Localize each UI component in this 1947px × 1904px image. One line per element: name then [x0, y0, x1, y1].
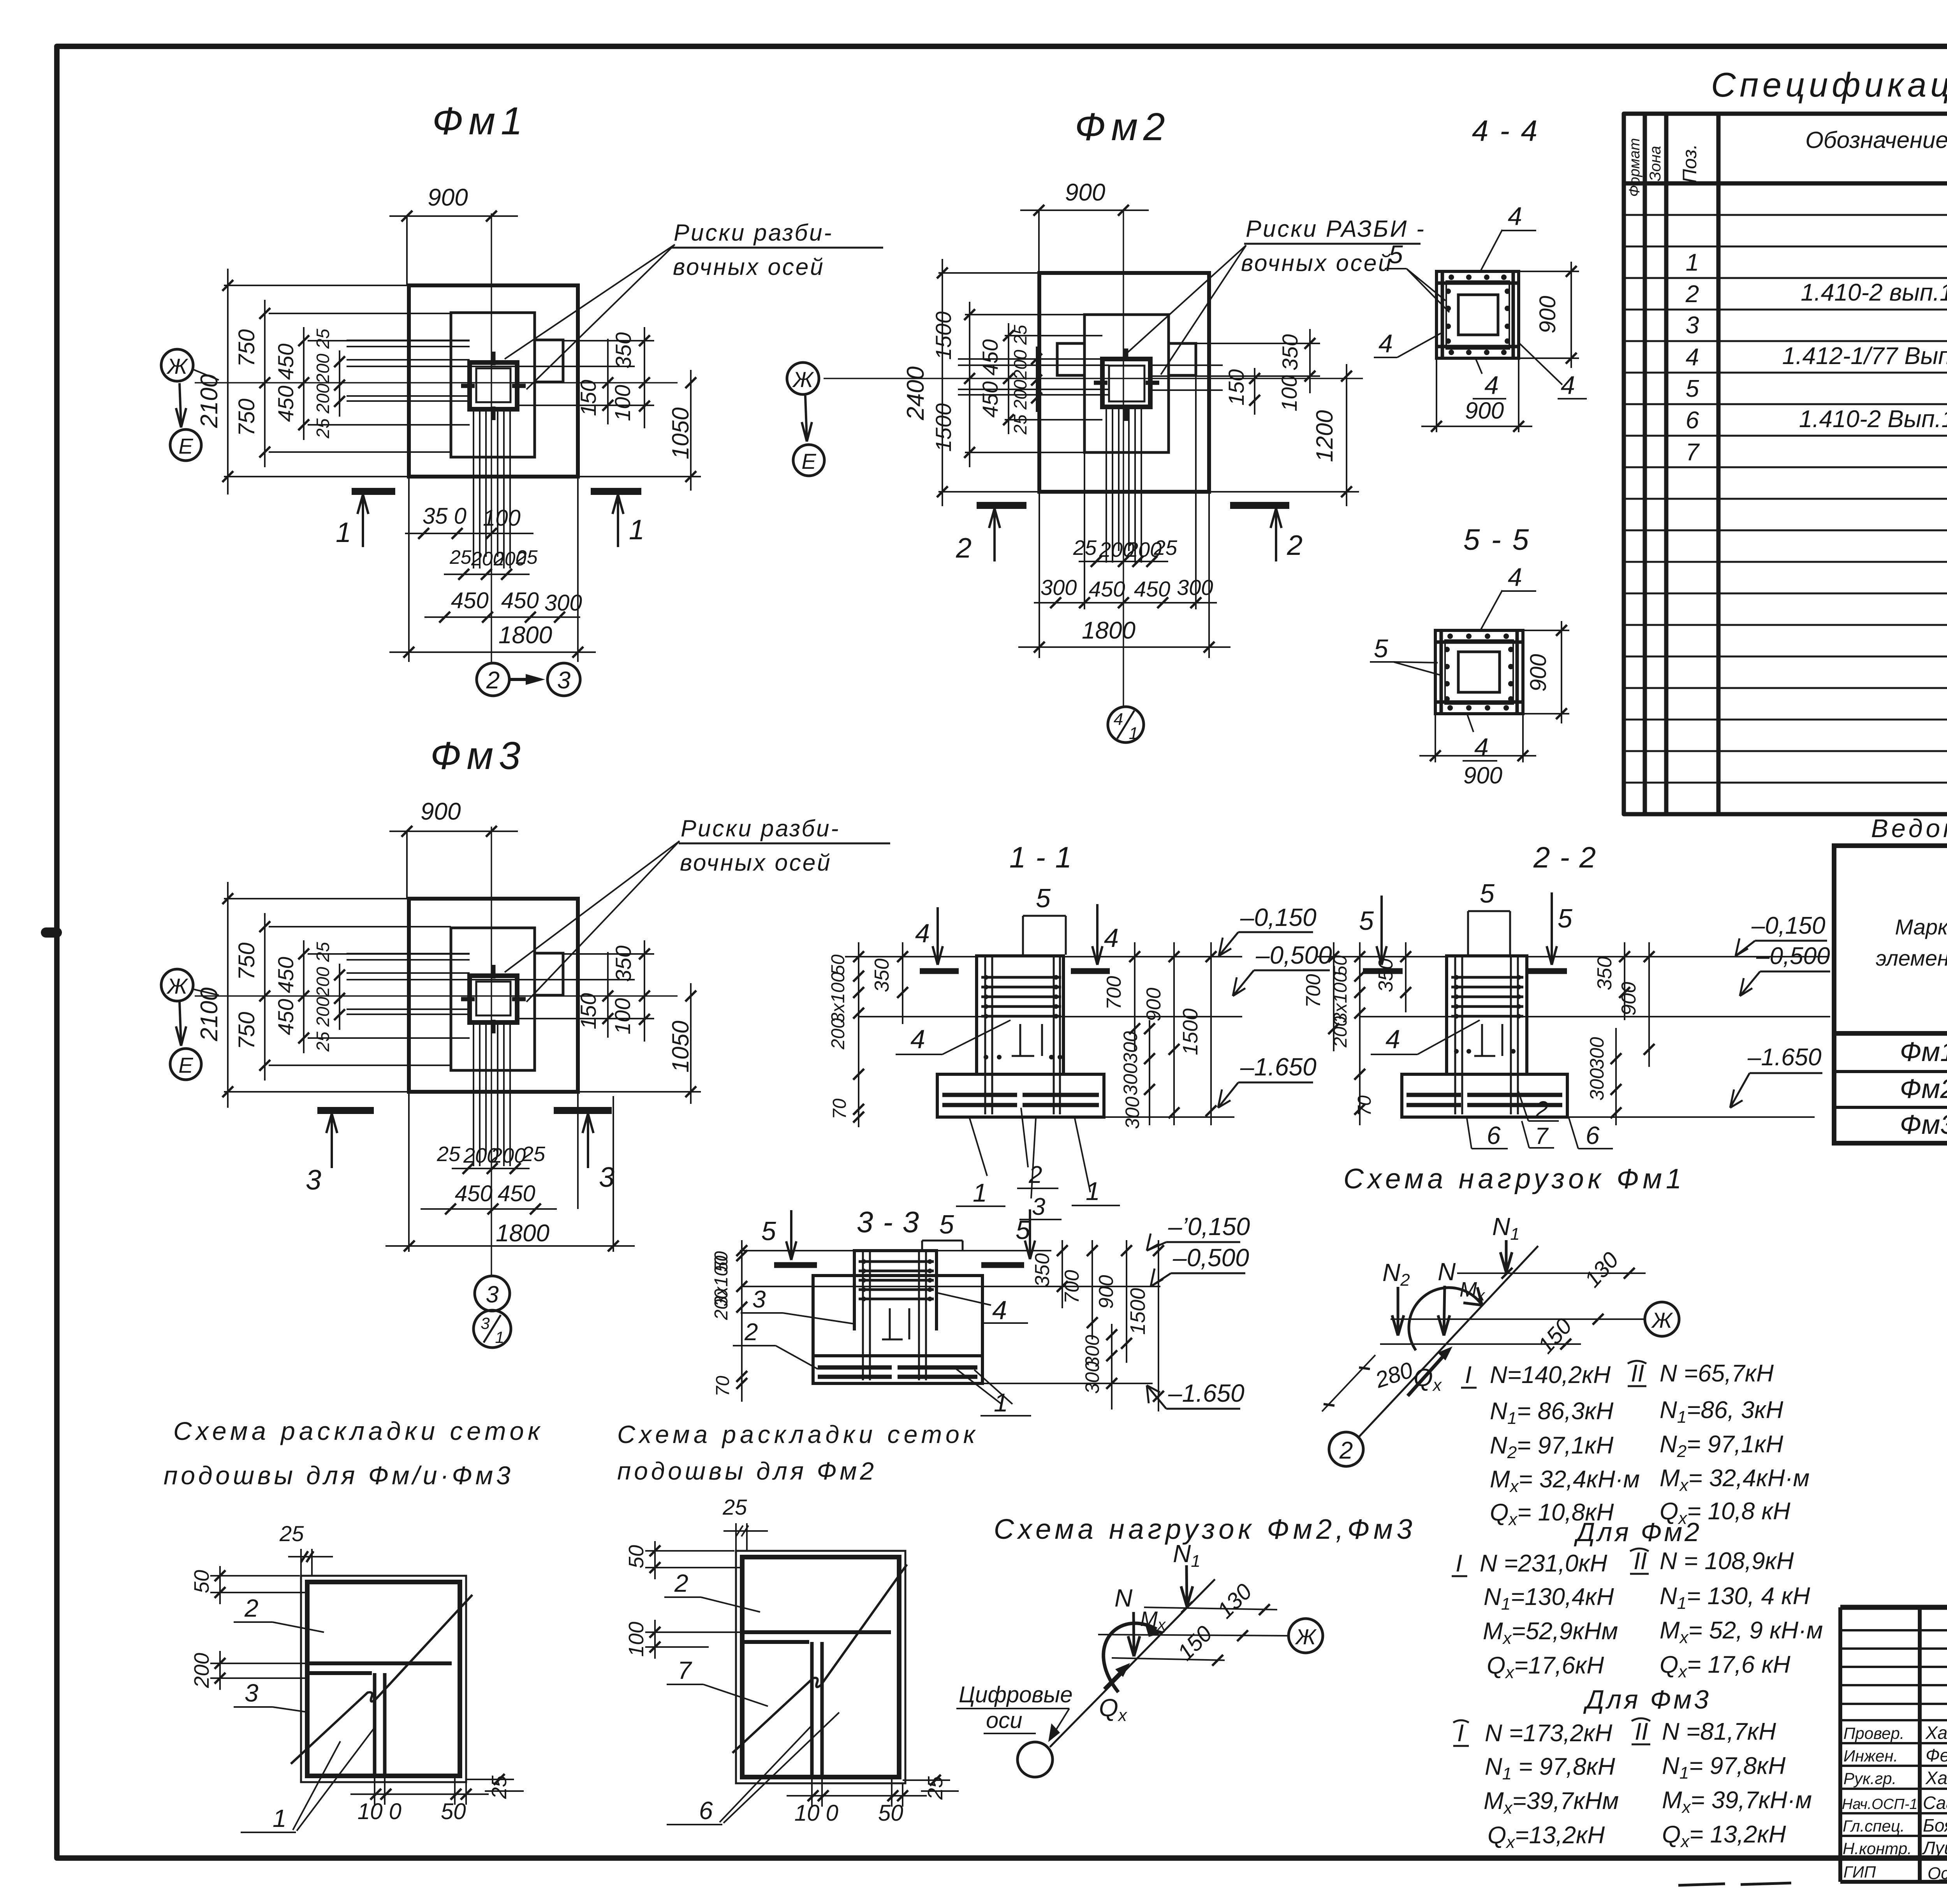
svg-text:900: 900	[1095, 1275, 1118, 1309]
svg-text:–1.650: –1.650	[1240, 1053, 1317, 1081]
svg-text:1800: 1800	[496, 1220, 549, 1247]
svg-text:25: 25	[488, 1775, 511, 1799]
svg-text:Фм1: Фм1	[432, 99, 528, 143]
axis circle Е	[170, 1049, 201, 1080]
left dim 450/450	[303, 940, 305, 1053]
left dim 750/750	[264, 300, 266, 467]
svg-text:Для Фм3: Для Фм3	[1583, 1685, 1711, 1714]
bottom dim 25 200 200 25	[444, 574, 530, 575]
svg-text:5: 5	[1686, 375, 1699, 402]
slab mesh bars	[942, 1095, 1099, 1105]
pedestal mesh bars	[859, 1262, 934, 1299]
pedestal	[977, 956, 1063, 1074]
svg-text:450: 450	[978, 339, 1002, 375]
svg-text:5: 5	[1359, 906, 1374, 936]
svg-text:Ж: Ж	[166, 974, 188, 998]
svg-text:Провер.: Провер.	[1843, 1724, 1905, 1742]
column inner	[476, 368, 511, 402]
svg-text:3: 3	[1686, 312, 1699, 339]
pedestal rebar verticals	[1455, 956, 1518, 1114]
section mark 2 left	[977, 502, 1026, 509]
svg-text:300: 300	[1120, 1031, 1141, 1064]
rebar dots	[1444, 633, 1514, 711]
left dim 25 200 200 25	[1036, 347, 1037, 412]
leader Риски	[505, 245, 675, 389]
svg-text:700: 700	[1103, 976, 1125, 1010]
pedestal	[1447, 956, 1527, 1074]
column outer	[470, 976, 517, 1022]
inner inset frame	[1446, 281, 1509, 349]
svg-text:5: 5	[1558, 904, 1572, 933]
svg-text:2: 2	[1028, 1161, 1042, 1188]
svg-text:Боярченко: Боярченко	[1923, 1815, 1947, 1835]
svg-text:Схема раскладки сеток: Схема раскладки сеток	[617, 1420, 979, 1448]
ground bars	[1363, 968, 1567, 974]
mesh bars vertical	[474, 1022, 510, 1166]
dim 900 bottom	[1421, 426, 1532, 427]
svg-text:N =231,0кН: N =231,0кН	[1480, 1550, 1607, 1577]
svg-text:25 200200 25: 25 200200 25	[1010, 325, 1030, 435]
svg-text:4: 4	[1508, 563, 1522, 591]
svg-text:5: 5	[1389, 240, 1403, 269]
steel table: Ведомость расхода стали	[1834, 846, 1947, 1143]
spec body texts	[1685, 184, 1947, 812]
base slab	[937, 1074, 1104, 1117]
Ж circle	[1645, 1302, 1679, 1336]
mesh square outer	[736, 1551, 905, 1783]
svg-text:5: 5	[1480, 879, 1495, 908]
svg-text:Для Фм2: Для Фм2	[1574, 1517, 1702, 1547]
svg-text:–’0,150: –’0,150	[1168, 1212, 1250, 1241]
svg-text:2: 2	[744, 1319, 758, 1346]
axis arrow down	[805, 396, 807, 439]
svg-text:Фм2: Фм2	[1075, 105, 1171, 149]
axis arrow down	[180, 1001, 181, 1044]
svg-text:35 0: 35 0	[422, 503, 467, 529]
column inner	[1109, 366, 1144, 401]
horizontal axis Ж	[195, 382, 678, 384]
column outer	[470, 362, 517, 409]
svg-text:5: 5	[1036, 883, 1051, 913]
middle line to Ж	[1391, 1318, 1645, 1320]
vertical axis	[1123, 211, 1124, 707]
riska marks	[1094, 348, 1159, 421]
svg-text:оси: оси	[986, 1708, 1023, 1733]
digital axis circle	[1018, 1742, 1053, 1777]
svg-text:750: 750	[234, 1012, 259, 1050]
mesh square outer	[301, 1576, 466, 1782]
inner mesh staple	[1012, 1024, 1042, 1056]
slab mesh bars	[1407, 1095, 1562, 1105]
svg-text:2: 2	[1535, 1096, 1548, 1123]
svg-text:–0,500: –0,500	[1255, 941, 1332, 969]
svg-text:200: 200	[190, 1653, 213, 1688]
mesh frame bars	[1435, 630, 1523, 714]
svg-text:50: 50	[441, 1799, 466, 1824]
svg-text:Ж: Ж	[166, 354, 188, 378]
svg-text:Ж: Ж	[1651, 1308, 1673, 1332]
svg-text:3: 3	[245, 1679, 259, 1707]
svg-text:4: 4	[1561, 371, 1575, 399]
svg-text:5: 5	[939, 1210, 954, 1239]
svg-text:II: II	[1631, 1360, 1644, 1387]
section mark 3 right	[554, 1107, 612, 1114]
svg-text:–1.650: –1.650	[1168, 1379, 1245, 1407]
svg-text:Рук.гр.: Рук.гр.	[1843, 1769, 1896, 1788]
diagonal	[291, 1595, 472, 1764]
svg-text:2: 2	[956, 533, 972, 564]
svg-text:25: 25	[521, 1142, 546, 1166]
bottom dims 100 50 25	[350, 1776, 489, 1805]
svg-text:1: 1	[336, 517, 351, 548]
left dim stack	[1333, 942, 1334, 1051]
svg-text:450: 450	[501, 588, 539, 613]
axis circle Е	[170, 429, 201, 461]
svg-text:3: 3	[306, 1165, 321, 1196]
middle step	[813, 1276, 982, 1356]
left dim 450/450	[1008, 323, 1009, 434]
right step	[535, 340, 563, 382]
pedestal rebar verticals	[863, 1251, 926, 1380]
svg-text:3х100: 3х100	[828, 972, 849, 1023]
svg-text:4: 4	[1385, 1024, 1400, 1054]
svg-text:6: 6	[699, 1797, 713, 1825]
svg-text:Фм3: Фм3	[1900, 1109, 1947, 1140]
svg-text:70: 70	[829, 1098, 850, 1119]
svg-text:1: 1	[973, 1178, 987, 1207]
svg-text:1 - 1: 1 - 1	[1009, 841, 1072, 874]
level lines	[1360, 1017, 1830, 1117]
svg-text:900: 900	[1065, 179, 1105, 206]
riska marks	[461, 965, 526, 1033]
svg-text:II: II	[1635, 1718, 1648, 1745]
280 dim slant	[1322, 1355, 1375, 1411]
outer slab outline Фм2	[1039, 273, 1209, 492]
svg-text:–0,500: –0,500	[1756, 943, 1830, 970]
title block (stamp)	[1678, 1607, 1947, 1885]
svg-text:I: I	[1457, 1720, 1464, 1747]
pedestal mesh bars	[1451, 977, 1523, 1016]
mesh 3/1 vertical divider	[375, 1673, 385, 1776]
svg-text:4: 4	[1114, 710, 1123, 729]
svg-text:4: 4	[1474, 733, 1489, 762]
svg-text:1800: 1800	[498, 622, 552, 649]
svg-text:700: 700	[1302, 974, 1325, 1008]
svg-text:100: 100	[483, 505, 521, 531]
svg-text:350: 350	[1031, 1253, 1054, 1287]
svg-text:25: 25	[449, 546, 472, 568]
svg-text:Фм2: Фм2	[1900, 1073, 1947, 1104]
right dim 350/100	[644, 327, 645, 428]
base slab	[813, 1356, 982, 1383]
svg-text:200: 200	[828, 1018, 849, 1050]
steel table texts	[1876, 854, 1947, 1140]
svg-text:Ханин: Ханин	[1925, 1723, 1947, 1743]
frame left edge notch	[46, 927, 57, 938]
svg-text:100: 100	[610, 385, 635, 421]
svg-text:I: I	[1456, 1550, 1462, 1577]
svg-text:900: 900	[421, 798, 461, 825]
svg-text:Риски разби-: Риски разби-	[674, 220, 833, 246]
svg-text:3 - 3: 3 - 3	[857, 1206, 920, 1239]
svg-text:3х100: 3х100	[1330, 972, 1351, 1023]
svg-text:750: 750	[234, 329, 259, 367]
svg-text:1: 1	[1686, 249, 1699, 276]
svg-text:Поз.: Поз.	[1679, 144, 1701, 183]
svg-text:1: 1	[629, 514, 644, 546]
svg-text:Обозначение: Обозначение	[1805, 127, 1947, 153]
svg-text:Qx= 13,2кН: Qx= 13,2кН	[1662, 1821, 1786, 1851]
svg-text:70: 70	[1354, 1095, 1375, 1116]
bottom dim 1800	[389, 651, 596, 653]
svg-text:Саакьянц: Саакьянц	[1923, 1793, 1947, 1813]
svg-text:7: 7	[1535, 1123, 1549, 1149]
svg-text:1050: 1050	[667, 407, 694, 459]
signatures (squiggles)	[1939, 1727, 1947, 1881]
pedestal	[854, 1251, 937, 1330]
svg-text:1: 1	[1129, 724, 1138, 743]
svg-text:4: 4	[910, 1024, 925, 1054]
axis circle Е	[793, 445, 824, 476]
svg-text:1.412-1/77 Вып.3: 1.412-1/77 Вып.3	[1782, 343, 1947, 370]
svg-text:350: 350	[871, 959, 893, 992]
svg-text:200: 200	[1330, 1016, 1351, 1048]
slant axis line	[1050, 1579, 1215, 1747]
middle step outline	[451, 313, 535, 457]
section mark 3 left	[317, 1107, 374, 1114]
right dim 1200	[1346, 364, 1347, 506]
Фм1 load values	[1465, 1360, 1810, 1529]
svg-text:900: 900	[1535, 296, 1560, 334]
signature table texts	[1842, 1723, 1947, 1883]
bottom dim 25 200 200 25	[452, 1168, 530, 1169]
svg-text:1: 1	[273, 1804, 287, 1832]
ГИП row dashes	[1678, 1881, 1947, 1885]
section mark 1 left	[352, 488, 395, 495]
Ж circle	[1289, 1619, 1323, 1653]
ground bars	[920, 968, 1110, 974]
svg-text:300: 300	[1120, 1063, 1141, 1096]
svg-text:900: 900	[1526, 654, 1551, 692]
left dim 25 200 200 25	[339, 350, 340, 417]
dim 900 bottom	[1419, 755, 1536, 757]
svg-text:N =81,7кН: N =81,7кН	[1662, 1718, 1776, 1745]
svg-text:100: 100	[610, 998, 635, 1034]
outer slab outline Фм1	[409, 285, 578, 477]
svg-text:1050: 1050	[667, 1021, 694, 1072]
svg-text:2: 2	[1339, 1437, 1353, 1464]
svg-text:4 - 4: 4 - 4	[1472, 114, 1539, 148]
svg-text:–0,500: –0,500	[1172, 1244, 1249, 1272]
svg-text:2: 2	[1685, 281, 1699, 308]
middle step outline	[1084, 315, 1169, 452]
right step	[1169, 343, 1196, 375]
middle line to Ж	[1098, 1635, 1289, 1636]
svg-text:7: 7	[1686, 439, 1700, 466]
svg-text:подошвы для Фм2: подошвы для Фм2	[617, 1457, 877, 1485]
bottom dims 100 50 25	[787, 1777, 927, 1807]
vertical axis	[491, 827, 492, 1276]
svg-text:Нач.ОСП-1: Нач.ОСП-1	[1842, 1796, 1918, 1812]
svg-text:I: I	[1465, 1362, 1472, 1388]
svg-text:Ж: Ж	[792, 367, 814, 392]
axis circle Ж	[161, 349, 193, 381]
bottom dim 450 450 300	[424, 616, 580, 618]
dim 900 right	[1561, 621, 1562, 723]
svg-text:4: 4	[915, 919, 930, 948]
svg-text:Фм1: Фм1	[1900, 1036, 1947, 1067]
svg-text:5: 5	[1016, 1215, 1030, 1245]
column outer	[1102, 359, 1150, 407]
svg-text:1.410-2 вып.1: 1.410-2 вып.1	[1801, 279, 1947, 306]
svg-text:100: 100	[625, 1622, 648, 1657]
left dim 450/450	[303, 327, 305, 440]
axis 2 slant line	[1359, 1246, 1538, 1437]
vertical axis	[491, 213, 492, 662]
svg-text:900: 900	[1463, 762, 1502, 788]
svg-text:ГИП: ГИП	[1843, 1863, 1876, 1881]
svg-text:450: 450	[273, 385, 298, 422]
svg-text:подошвы для Фм/и·Фм3: подошвы для Фм/и·Фм3	[164, 1461, 514, 1490]
svg-text:2100: 2100	[196, 374, 223, 428]
svg-text:7: 7	[678, 1656, 692, 1684]
svg-text:Риски разби-: Риски разби-	[681, 815, 840, 841]
svg-text:Ж: Ж	[1294, 1624, 1317, 1649]
svg-text:450: 450	[273, 999, 298, 1035]
ground level line	[1316, 956, 1828, 957]
svg-text:50: 50	[625, 1545, 648, 1568]
svg-text:300: 300	[1081, 1361, 1103, 1394]
circle 3/1 below	[474, 1310, 511, 1348]
svg-text:900: 900	[428, 184, 468, 211]
section mark 1 right	[591, 488, 641, 495]
left dim 2100	[227, 882, 229, 1108]
mesh bars horizontal	[347, 954, 635, 1014]
svg-text:900: 900	[1618, 982, 1640, 1016]
svg-text:1500: 1500	[931, 311, 956, 360]
level lines	[859, 1017, 1242, 1117]
svg-text:6: 6	[1487, 1121, 1501, 1149]
svg-text:4: 4	[1484, 371, 1499, 399]
svg-text:Фм3: Фм3	[430, 734, 526, 778]
svg-text:25: 25	[516, 546, 538, 568]
pedestal mesh bars	[981, 977, 1061, 1016]
svg-text:3: 3	[752, 1286, 766, 1313]
svg-text:Луценко: Луценко	[1922, 1838, 1947, 1858]
svg-text:350: 350	[1278, 334, 1302, 370]
svg-text:50: 50	[190, 1570, 213, 1593]
svg-text:4: 4	[1378, 329, 1393, 358]
svg-text:N: N	[1438, 1258, 1456, 1286]
svg-text:350: 350	[611, 332, 636, 368]
diagonal	[732, 1564, 907, 1753]
svg-text:350: 350	[611, 945, 636, 982]
svg-text:150: 150	[576, 380, 600, 416]
svg-text:Федотова: Федотова	[1926, 1745, 1947, 1765]
right dim stack	[1062, 1240, 1063, 1308]
dim line 130	[1144, 1607, 1277, 1610]
inner mesh staple	[882, 1308, 909, 1339]
svg-text:450: 450	[273, 343, 298, 380]
svg-text:Е: Е	[178, 434, 193, 458]
right dim 350	[1309, 329, 1311, 393]
svg-text:1.410-2 Вып.1: 1.410-2 Вып.1	[1799, 406, 1947, 433]
signature table	[1840, 1607, 1947, 1882]
rebar dots	[1445, 275, 1510, 355]
svg-text:Ханин: Ханин	[1925, 1768, 1947, 1788]
circles 2-3	[477, 663, 509, 696]
bottom dim 450 450	[421, 1208, 557, 1210]
svg-text:5: 5	[761, 1216, 776, 1246]
riska marks	[461, 352, 526, 420]
svg-text:1500: 1500	[1126, 1288, 1150, 1335]
mesh frame thick	[742, 1557, 899, 1777]
left dim 2400	[942, 259, 943, 506]
svg-text:5 - 5: 5 - 5	[1463, 523, 1530, 556]
svg-text:300: 300	[1586, 1037, 1608, 1070]
svg-text:Спецификация к фундаментам: Спецификация к фундаментам Фм1 -Фм3	[1711, 65, 1947, 104]
svg-text:150: 150	[1224, 369, 1248, 405]
svg-text:N = 108,9кН: N = 108,9кН	[1660, 1548, 1794, 1575]
svg-text:Е: Е	[178, 1053, 193, 1077]
svg-text:200: 200	[711, 1289, 732, 1320]
svg-text:150: 150	[576, 993, 600, 1029]
svg-text:10 0: 10 0	[357, 1799, 401, 1824]
svg-text:100: 100	[1277, 375, 1301, 411]
horizontal axis Ж	[824, 378, 1363, 379]
svg-text:450: 450	[451, 588, 489, 613]
mesh frame bars	[1436, 271, 1519, 358]
svg-text:25 200200 25: 25 200200 25	[313, 942, 333, 1052]
dim 100 left	[645, 1620, 741, 1659]
left dim 25 200 200 25	[339, 964, 340, 1030]
column void	[1458, 295, 1498, 335]
svg-text:N=140,2кН: N=140,2кН	[1490, 1362, 1611, 1388]
lower dim line 150	[1380, 1343, 1581, 1345]
svg-text:Цифровые: Цифровые	[959, 1682, 1073, 1707]
svg-text:Ведомость расхода стали на эле: Ведомость расхода стали на элемент, кг	[1871, 814, 1947, 843]
column void	[1458, 652, 1500, 692]
svg-text:1500: 1500	[1179, 1008, 1202, 1055]
svg-text:450: 450	[1089, 577, 1125, 601]
svg-text:–0,150: –0,150	[1240, 903, 1317, 931]
bottom dim 300 450 450 300	[1034, 602, 1217, 604]
middle step outline	[451, 928, 535, 1070]
svg-text:3: 3	[481, 1314, 489, 1332]
svg-text:элемента: элемента	[1876, 946, 1947, 970]
mesh 2/7 divider	[742, 1630, 891, 1634]
svg-text:1: 1	[495, 1328, 504, 1346]
svg-text:Qx=13,2кН: Qx=13,2кН	[1488, 1822, 1605, 1852]
svg-text:300: 300	[1040, 575, 1077, 600]
mesh bars vertical	[474, 409, 510, 568]
svg-text:4: 4	[1104, 923, 1119, 953]
column inner	[476, 982, 511, 1015]
svg-text:N: N	[1114, 1584, 1133, 1612]
right dim 1050	[690, 370, 692, 491]
svg-text:Риски РАЗБИ -: Риски РАЗБИ -	[1246, 216, 1426, 242]
svg-text:1200: 1200	[1311, 410, 1338, 462]
svg-text:2: 2	[244, 1594, 259, 1622]
svg-text:4: 4	[1508, 202, 1522, 231]
svg-text:Марка: Марка	[1895, 915, 1947, 939]
bottom dim 25 200 200 25	[1079, 561, 1168, 562]
right dim 150	[607, 339, 609, 424]
svg-text:1: 1	[994, 1388, 1008, 1417]
bottom dim 1800	[386, 1245, 635, 1247]
axis circle Ж	[161, 969, 193, 1001]
svg-text:750: 750	[234, 399, 259, 436]
